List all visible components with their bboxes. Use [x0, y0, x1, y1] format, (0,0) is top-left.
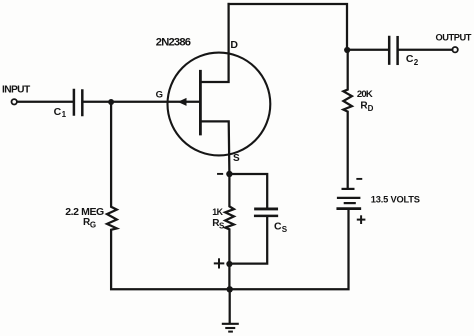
svg-text:C: C: [54, 106, 62, 118]
svg-text:S: S: [233, 153, 240, 164]
svg-text:OUTPUT: OUTPUT: [436, 33, 472, 43]
svg-text:G: G: [90, 221, 96, 230]
svg-text:C: C: [406, 53, 414, 65]
svg-text:2: 2: [414, 58, 419, 67]
svg-text:G: G: [156, 89, 163, 100]
svg-text:D: D: [368, 104, 374, 113]
svg-text:D: D: [230, 39, 238, 51]
svg-text:C: C: [274, 221, 282, 233]
svg-text:1: 1: [62, 110, 67, 119]
svg-text:INPUT: INPUT: [2, 85, 31, 96]
svg-text:20K: 20K: [357, 89, 373, 100]
svg-text:1K: 1K: [212, 207, 223, 217]
svg-text:2N2386: 2N2386: [156, 37, 191, 49]
svg-text:S: S: [282, 225, 288, 234]
svg-text:13.5 VOLTS: 13.5 VOLTS: [371, 195, 420, 205]
svg-text:S: S: [219, 221, 225, 230]
